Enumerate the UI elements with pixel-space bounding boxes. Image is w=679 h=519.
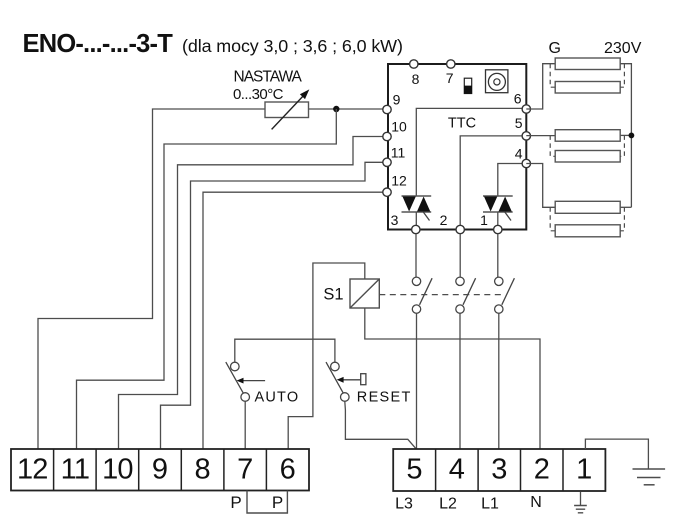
triac Q1: [402, 196, 432, 230]
svg-text:1: 1: [576, 454, 592, 486]
pin 12 terminal: [383, 188, 391, 196]
wire TTC pin 12 to block cell 8: [203, 192, 387, 449]
dashed mechanical link S1 to contacts: [379, 294, 503, 296]
wire pin 1 to contact K3: [497, 234, 499, 278]
svg-text:8: 8: [195, 454, 211, 486]
svg-text:8: 8: [412, 71, 420, 87]
internal wire pin 6 to triac 1: [416, 108, 526, 196]
wire heater group2 to 230V bus: [620, 134, 631, 136]
svg-text:ENO-...-...-3-T: ENO-...-...-3-T: [23, 30, 174, 58]
dashed link group1: [550, 64, 624, 87]
wire potentiometer right to TTC pin 9: [309, 108, 388, 110]
wire heater group1 to 230V bus: [620, 64, 631, 208]
svg-text:12: 12: [391, 173, 407, 189]
heater element E4 optional: [555, 151, 620, 163]
wire pin 2 to contact K2: [459, 234, 461, 278]
svg-text:10: 10: [102, 454, 133, 486]
svg-text:7: 7: [237, 454, 253, 486]
svg-text:G: G: [549, 40, 561, 57]
internal wire pin 4 to triac 2: [498, 164, 527, 197]
svg-text:3: 3: [491, 454, 507, 486]
heater element E6 optional: [555, 225, 620, 237]
heater element E2 optional: [555, 82, 620, 94]
wire pin 6 to heater group 1: [526, 64, 555, 109]
wire pin 4 to heater group 3: [526, 164, 555, 208]
svg-text:(dla mocy 3,0 ; 3,6 ; 6,0 kW): (dla mocy 3,0 ; 3,6 ; 6,0 kW): [182, 36, 403, 56]
heater element E1: [555, 58, 620, 70]
heater element E3: [555, 130, 620, 142]
dashed link group3: [550, 207, 624, 231]
knob icon inside TTC: [486, 70, 508, 93]
switch S1 box: [350, 279, 379, 308]
svg-text:L1: L1: [481, 496, 499, 513]
switch AUTO: [226, 362, 265, 401]
pin 1 terminal: [494, 225, 502, 233]
wire AUTO top to RESET top: [235, 339, 335, 362]
node junction dot at pin 9 wire: [333, 106, 339, 112]
svg-text:4: 4: [515, 146, 523, 162]
pin 2 terminal: [456, 225, 464, 233]
potentiometer NASTAWA: [265, 102, 309, 118]
pin 8 terminal: [410, 60, 418, 68]
wire from potentiometer left to terminal 12 block cell 12: [38, 109, 265, 449]
svg-text:6: 6: [280, 454, 296, 486]
ground symbol main earth: [633, 469, 666, 485]
contact K1: [412, 277, 432, 313]
svg-text:3: 3: [391, 212, 399, 228]
pin 3 terminal: [412, 225, 420, 233]
terminal block X1 cells 12-6: [11, 449, 309, 491]
pin 7 terminal: [447, 60, 455, 68]
svg-text:12: 12: [17, 454, 48, 486]
svg-text:230V: 230V: [604, 40, 642, 57]
node dot on 230V bus: [629, 133, 635, 139]
svg-text:2: 2: [534, 454, 550, 486]
internal wire pin 5 to pin 2: [460, 136, 526, 230]
svg-text:AUTO: AUTO: [255, 390, 300, 406]
svg-text:L3: L3: [395, 496, 413, 513]
wire TTC pin 11 to block cell 9: [161, 162, 388, 449]
svg-text:5: 5: [406, 454, 422, 486]
pin 4 terminal: [522, 159, 530, 167]
svg-text:9: 9: [393, 92, 401, 108]
wire heater group3 to 230V bus: [620, 206, 631, 208]
wire S1 top to block cell 6: [288, 263, 365, 449]
small earth symbol under terminal 1: [574, 492, 587, 513]
triac Q2: [483, 196, 513, 230]
pin 11 terminal: [383, 158, 391, 166]
wire pin 5 to heater group 2: [526, 135, 555, 137]
heater element E5: [555, 201, 620, 213]
svg-text:6: 6: [514, 91, 522, 107]
wire TTC pin 10 to block cell 10: [119, 137, 388, 450]
indicator switch icon inside TTC: [464, 78, 471, 93]
switch RESET: [326, 362, 366, 401]
svg-text:S1: S1: [323, 286, 343, 304]
wire S1 bottom to terminal 2 N: [365, 308, 540, 449]
svg-text:2: 2: [440, 212, 448, 228]
wire contact K1 to terminal 5 L3: [416, 313, 418, 449]
wire RESET bottom to terminal 5: [345, 401, 416, 448]
wire contact K3 to terminal 3 L1: [498, 313, 500, 449]
wire pin 3 to contact K1: [415, 234, 417, 278]
terminal block X2 cells 5-1: [393, 449, 605, 491]
contact K3: [495, 277, 515, 313]
wire terminal 1 to earth: [585, 439, 648, 469]
potentiometer arrow: [272, 96, 304, 130]
wire contact K2 to terminal 4 L2: [459, 313, 461, 449]
jumper P-P under cells 7 and 6: [247, 491, 287, 514]
pin 6 terminal: [522, 105, 530, 113]
svg-text:5: 5: [515, 115, 523, 131]
svg-text:P: P: [230, 493, 241, 512]
wire from junction dot to block cell 11: [77, 109, 337, 449]
contact K2: [456, 277, 476, 313]
svg-text:L2: L2: [439, 496, 457, 513]
svg-text:RESET: RESET: [357, 390, 412, 406]
svg-text:0...30°C: 0...30°C: [233, 86, 284, 103]
pin 5 terminal: [522, 132, 530, 140]
dashed link group2: [550, 135, 624, 156]
svg-text:P: P: [272, 493, 283, 512]
pin 10 terminal: [383, 132, 391, 140]
svg-text:11: 11: [61, 454, 90, 486]
svg-text:9: 9: [152, 454, 168, 486]
svg-text:NASTAWA: NASTAWA: [234, 69, 303, 86]
svg-text:TTC: TTC: [448, 116, 476, 132]
TTC controller box U1: [388, 64, 526, 230]
svg-text:N: N: [530, 494, 542, 511]
svg-text:7: 7: [446, 70, 454, 86]
svg-text:4: 4: [449, 454, 465, 486]
svg-text:1: 1: [480, 212, 488, 228]
svg-text:10: 10: [391, 119, 407, 135]
svg-text:11: 11: [391, 145, 406, 161]
pin 9 terminal: [383, 105, 391, 113]
wire AUTO bottom to block cell 7: [244, 401, 246, 449]
